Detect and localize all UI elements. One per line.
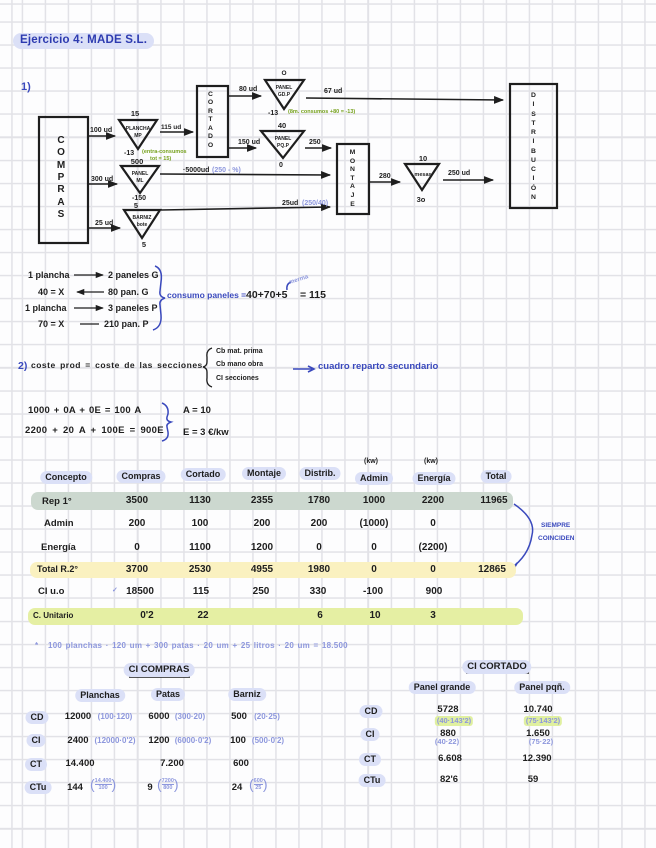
triangle T1 plancha [119, 120, 157, 149]
arrow note1 [74, 274, 103, 276]
item 1) [21, 82, 31, 93]
notes block [28, 271, 70, 280]
t1 labels [131, 110, 139, 118]
arrow t3-montaje [161, 207, 330, 210]
arrow montaje-t6 [369, 181, 400, 183]
row cd [360, 705, 383, 718]
row ct [25, 758, 47, 771]
bracket totals [510, 504, 533, 569]
main table headers [40, 471, 92, 484]
t5 labels [278, 122, 286, 130]
triangle T2 panel ml [121, 166, 159, 193]
t2 labels [131, 158, 144, 166]
row total r2 yellow bar [30, 562, 516, 578]
row cd [26, 711, 49, 724]
row admin [44, 519, 74, 529]
vertical box letters [54, 135, 68, 221]
row ctu [359, 774, 386, 787]
t4 labels [281, 71, 286, 78]
arrow note2 left [77, 291, 104, 293]
CI CORTADO table [462, 660, 531, 674]
box CORTADO [197, 86, 228, 157]
box MONTAJE [337, 144, 369, 214]
row ci [361, 728, 380, 741]
arrow t6-distribucion [443, 179, 493, 181]
arrow t4-distribucion [306, 98, 503, 100]
arrow reparto [293, 368, 312, 370]
triangle T4 panel gde [265, 80, 304, 109]
arrow t2-montaje [160, 174, 330, 175]
brace secciones [203, 348, 212, 387]
title [13, 33, 154, 49]
underline ci cortado [466, 672, 529, 674]
arrow compras-t1 [88, 135, 115, 137]
long line labels [183, 167, 209, 174]
siempre coinciden [541, 523, 570, 530]
box COMPRAS [39, 117, 88, 243]
triangle T5 panel pqn [261, 131, 304, 158]
row energia [41, 543, 76, 553]
merma leader [287, 282, 291, 290]
row ci [27, 734, 46, 747]
equations [28, 406, 141, 416]
row ct [359, 753, 381, 766]
row c unitario lime bar [28, 608, 523, 625]
triangle T3 barniz [124, 210, 160, 238]
section 2 [18, 361, 27, 372]
brace notes [153, 266, 165, 330]
blue formula [35, 642, 38, 650]
check total [511, 563, 517, 574]
row rep1 green bar [31, 492, 513, 510]
CI COMPRAS table [124, 663, 195, 677]
dash note4 [80, 323, 99, 325]
arrow cortado-t5 [228, 147, 256, 149]
t6 labels [419, 155, 427, 163]
brace equations [162, 403, 171, 441]
row ctu [25, 781, 52, 794]
underline ci compras [129, 676, 190, 678]
row ci uo [112, 587, 118, 594]
arrow compras-t2 [88, 183, 117, 185]
arrow cortado-t4 [228, 95, 261, 97]
box DISTRIBUCION [510, 84, 557, 208]
arrow t1-cortado [160, 131, 193, 133]
arrow compras-t3 [88, 227, 120, 229]
arrow t5-montaje [305, 147, 331, 149]
arrow note3 [74, 307, 103, 309]
t3 labels [134, 202, 138, 210]
triangle T6 mesas [405, 164, 439, 190]
